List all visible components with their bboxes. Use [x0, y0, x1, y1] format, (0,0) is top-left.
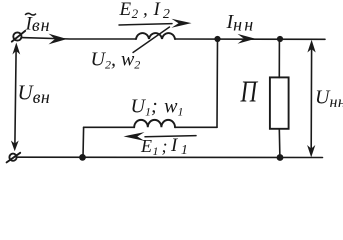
svg-text:E2: E2	[119, 0, 139, 21]
svg-text:E1: E1	[140, 136, 159, 158]
svg-text:Uвн: Uвн	[18, 81, 51, 108]
wire middle horizontal left of coil w1	[84, 126, 135, 128]
wire vertical down to bottom rail	[82, 127, 85, 157]
terminal bottom-left	[9, 154, 16, 161]
wire top horizontal right of coil	[175, 38, 325, 40]
voltage line Unn right	[310, 49, 312, 148]
arrowhead E2 I2	[172, 19, 192, 28]
tilde over Ivn	[25, 13, 36, 15]
svg-text:Uнн: Uнн	[315, 87, 343, 112]
terminal bottom-left slash	[7, 153, 21, 163]
arrow shaft E2 I2	[119, 24, 172, 25]
svg-text:;: ;	[162, 136, 168, 156]
voltage line Uvn left	[15, 50, 16, 144]
arrowhead Uvn down	[11, 141, 19, 152]
arrowhead current Ivn on top wire	[49, 34, 68, 45]
node junction top at tap	[214, 36, 220, 42]
arrow shaft E1 I1	[145, 136, 196, 137]
svg-text:П: П	[240, 74, 259, 108]
svg-text:,: ,	[143, 0, 148, 20]
resistor load П	[270, 77, 289, 128]
wire middle horizontal right of coil w1	[175, 126, 217, 128]
svg-text:U2, w2: U2, w2	[91, 49, 141, 72]
arrowhead Unn down	[307, 145, 315, 157]
terminal top-left	[13, 32, 21, 40]
node junction top at load branch	[277, 36, 283, 42]
terminal top-left slash	[12, 31, 25, 42]
arrowhead Unn up	[307, 40, 315, 53]
wire top horizontal left of coil	[22, 38, 136, 39]
node junction bottom left	[79, 154, 86, 161]
svg-text:U1; w1: U1; w1	[131, 96, 184, 119]
node junction bottom at load branch	[277, 154, 284, 161]
wire bottom horizontal	[17, 156, 323, 158]
arrowhead current Inn on top wire	[238, 34, 256, 44]
svg-text:Iнн: Iнн	[226, 11, 256, 35]
wire load branch lower	[278, 129, 281, 158]
winding w2	[136, 33, 175, 39]
wire vertical tap to winding w1	[216, 39, 219, 127]
arrowhead Uvn up	[12, 43, 20, 55]
svg-text:Iвн: Iвн	[25, 14, 51, 36]
svg-text:I2: I2	[153, 0, 170, 22]
arrowhead E1 I1 (left)	[124, 132, 145, 141]
wire load branch upper	[278, 39, 280, 78]
svg-text:I1: I1	[170, 135, 188, 158]
leader line to w2	[133, 27, 170, 53]
winding w1	[134, 120, 175, 127]
